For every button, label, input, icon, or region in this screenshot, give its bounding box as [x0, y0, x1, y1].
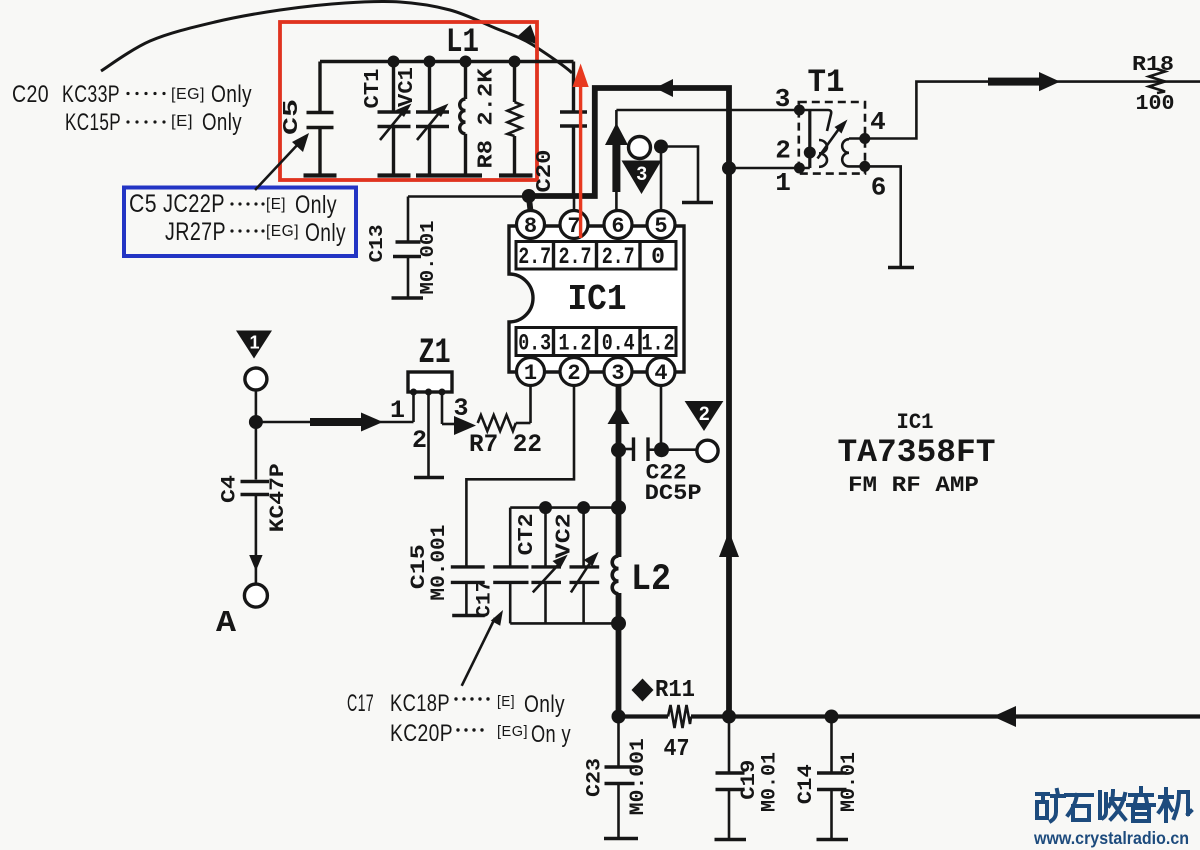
terminal circle A: [244, 584, 267, 607]
resistor R7 22: [469, 415, 542, 459]
thick signal arrow on wire: [310, 418, 364, 426]
svg-text:Only: Only: [202, 109, 242, 136]
junction dot pin5 node: [654, 140, 668, 154]
svg-text:L1: L1: [446, 24, 479, 62]
arrowhead left on bottom rail: [993, 706, 1016, 727]
wire T1 pin6 to ground: [849, 166, 901, 266]
thick segment on pin6 riser: [612, 138, 620, 192]
arrowhead on arc: [518, 25, 539, 45]
junction dot C22 on pin3 wire: [611, 443, 626, 458]
node dot CT1 top: [388, 56, 400, 68]
test point circle 3: [629, 137, 651, 159]
svg-text:Z1: Z1: [419, 333, 451, 373]
blue note box C5 JC22P/JR27P: [124, 188, 356, 257]
svg-text:R8 2.2K: R8 2.2K: [476, 68, 499, 168]
ground bar Z1 pin2: [414, 476, 444, 479]
variable capacitor VC2: [554, 508, 600, 624]
junction dot VC2 top: [577, 501, 590, 514]
svg-text:0.4: 0.4: [602, 331, 635, 357]
svg-text:FM RF AMP: FM RF AMP: [848, 473, 979, 498]
svg-text:CT2: CT2: [516, 513, 539, 555]
marker triangle 2: [685, 401, 724, 431]
resistor R8 2.2K: [476, 62, 533, 176]
svg-text:C5: C5: [281, 99, 304, 135]
wire pin6 to T1 pin3: [616, 109, 810, 112]
ceramic filter Z1: [390, 333, 469, 478]
svg-text:3: 3: [637, 164, 648, 185]
svg-text:1: 1: [390, 396, 405, 425]
svg-text:[EG]: [EG]: [266, 223, 299, 240]
thick supply rail: pin8 node to top bus to right vertical: [529, 88, 729, 717]
arrow from note to C17: [462, 618, 495, 686]
antenna terminal circle top: [245, 368, 267, 390]
junction dot tank bottom: [611, 616, 626, 631]
arrowhead left on top bus: [655, 79, 673, 97]
T1 secondary coil: [842, 139, 849, 166]
svg-text:[E]: [E]: [171, 113, 193, 130]
char yin: [1128, 788, 1154, 821]
svg-text:C4: C4: [219, 475, 242, 503]
char ji: [1159, 789, 1191, 821]
svg-text:JR27P: JR27P: [165, 218, 226, 246]
svg-text:KC15P: KC15P: [65, 109, 121, 136]
svg-text:3: 3: [611, 361, 624, 386]
inductor L1 coil: [449, 62, 482, 176]
svg-text:[E]: [E]: [266, 196, 286, 213]
capacitor C23 M0.001: [584, 717, 651, 839]
junction dot C19/bus node: [722, 710, 736, 724]
svg-text:0.3: 0.3: [518, 331, 551, 357]
T1 primary feed corner: [810, 110, 831, 131]
char shou: [1100, 791, 1125, 819]
junction dot node A: [249, 415, 263, 429]
svg-text:M0.01: M0.01: [759, 752, 782, 812]
svg-text:M0.001: M0.001: [428, 525, 451, 601]
T1 tuning arrow: [818, 126, 842, 159]
arrowhead up on pin3 wire: [608, 405, 630, 424]
test point circle 2: [697, 440, 718, 461]
svg-text:1: 1: [775, 168, 791, 198]
trimmer capacitor CT2: [516, 508, 568, 624]
svg-text:M0.01: M0.01: [838, 752, 861, 812]
T1 primary core line: [808, 110, 811, 168]
tank bottom rail: [510, 622, 618, 625]
svg-text:1: 1: [249, 333, 259, 353]
T1 dashed box: [799, 102, 865, 174]
svg-text:6: 6: [611, 214, 624, 239]
svg-text:DC5P: DC5P: [645, 481, 702, 506]
svg-text:Only: Only: [524, 691, 565, 718]
svg-text:On y: On y: [531, 721, 571, 748]
wire pin4 down to C22 node: [660, 386, 663, 450]
svg-text:Only: Only: [295, 191, 337, 219]
svg-text:4: 4: [870, 107, 886, 137]
svg-text:C5: C5: [129, 190, 157, 218]
marker triangle 3: [622, 161, 662, 195]
svg-text:6: 6: [871, 173, 887, 203]
T1 edge dot pin4: [859, 133, 870, 144]
bottom supply rail: [619, 714, 669, 718]
svg-text:1.2: 1.2: [559, 331, 592, 357]
wire pin2 to C15: [466, 386, 574, 567]
svg-text:100: 100: [1136, 93, 1175, 116]
capacitor C22 DC5P: [619, 437, 702, 506]
resistor R18 100: [1132, 54, 1175, 116]
svg-text:C20: C20: [12, 81, 49, 108]
arrow from blue box to C5: [255, 141, 301, 190]
wire pin8 thick stub: [529, 196, 531, 211]
svg-text:L2: L2: [631, 559, 671, 601]
junction dot C14 node: [825, 710, 839, 724]
voltage value boxes top row: [516, 242, 676, 271]
thick arrow on output wire: [988, 78, 1043, 86]
svg-text:IC1: IC1: [568, 279, 627, 320]
junction dot C22/pin4/TP2: [654, 442, 669, 457]
inductor L2 coil on pin3 wire: [612, 556, 618, 594]
svg-text:VC1: VC1: [396, 67, 419, 107]
watermark logo crystalradio: [1037, 788, 1191, 821]
svg-text:2.7: 2.7: [602, 244, 635, 270]
marker triangle 1: [236, 331, 272, 359]
T1 edge dot pin1: [794, 163, 805, 174]
svg-text:TA7358FT: TA7358FT: [838, 434, 996, 471]
wire pin7 stub: [573, 196, 576, 211]
svg-text:KC33P: KC33P: [62, 81, 120, 108]
tank top rail: [510, 506, 618, 509]
char kuang: [1037, 790, 1064, 821]
pin 5: [647, 211, 675, 239]
pin 2: [560, 358, 588, 386]
wire C22 node to TP2: [662, 448, 697, 451]
svg-text:T1: T1: [808, 64, 845, 101]
arrowhead up on right bus vertical: [719, 531, 739, 557]
svg-text:www.crystalradio.cn: www.crystalradio.cn: [1033, 828, 1189, 848]
svg-text:2: 2: [412, 426, 427, 455]
svg-text:C13: C13: [366, 225, 388, 263]
junction dot tank top: [611, 500, 626, 515]
T1 primary junction dot pin2: [804, 147, 816, 159]
arrowhead down to terminal A: [249, 555, 262, 571]
node dot VC1 top: [424, 56, 436, 68]
capacitor C13 M0.001: [366, 197, 439, 299]
node dot L1 top: [460, 56, 472, 68]
part annotation IC1 TA7358FT FM RF AMP: [838, 410, 996, 498]
pin 8: [517, 211, 545, 239]
ground bar T1 pin6: [888, 266, 914, 269]
svg-text:3: 3: [775, 84, 791, 114]
svg-text:R11: R11: [655, 677, 695, 704]
svg-text:R7 22: R7 22: [469, 430, 542, 459]
T1 primary coil: [819, 140, 827, 167]
pin 3: [604, 358, 632, 386]
svg-text:[EG]: [EG]: [497, 723, 528, 740]
svg-text:Only: Only: [305, 219, 346, 247]
arrowhead on Z1 output: [454, 416, 476, 435]
svg-text:5: 5: [654, 214, 667, 239]
svg-text:VC2: VC2: [554, 513, 577, 558]
svg-text:2: 2: [699, 404, 710, 425]
svg-text:M0.001: M0.001: [627, 738, 650, 815]
svg-text:Only: Only: [211, 81, 252, 108]
capacitor C17 on left edge: [474, 508, 529, 624]
ground bar: [682, 201, 713, 204]
wire Z1 pin3 to R7: [442, 423, 458, 426]
svg-text:KC18P: KC18P: [390, 690, 450, 717]
wire C13 node: [408, 195, 529, 198]
svg-text:KC47P: KC47P: [267, 463, 290, 532]
svg-text:8: 8: [524, 214, 537, 239]
red highlight box around L1 tank: [280, 22, 537, 180]
arrowhead up on pin6 riser: [605, 123, 628, 145]
svg-text:JC22P: JC22P: [163, 190, 225, 218]
svg-text:2.7: 2.7: [559, 244, 592, 270]
svg-text:C17: C17: [474, 580, 497, 618]
svg-text:47: 47: [664, 736, 690, 763]
svg-text:R18: R18: [1132, 54, 1174, 77]
svg-text:KC20P: KC20P: [390, 720, 453, 747]
svg-text:1: 1: [524, 361, 537, 386]
wire T1 pin1 from bus: [729, 167, 810, 170]
svg-text:C14: C14: [795, 764, 818, 804]
variable capacitor VC1: [396, 62, 449, 176]
pin 4: [647, 358, 675, 386]
IC1 body: [509, 226, 684, 372]
capacitor C14 M0.01: [795, 717, 861, 840]
top rail wire of tank: [320, 60, 574, 63]
svg-text:2: 2: [567, 361, 580, 386]
wire T1 pin4 output: [849, 82, 1200, 139]
capacitor C19 M0.01: [715, 717, 782, 840]
char shi: [1066, 795, 1092, 820]
wire node A to Z1 pin1: [256, 421, 414, 424]
svg-text:C20: C20: [534, 150, 557, 193]
trimmer capacitor CT1: [362, 62, 412, 176]
svg-text:M0.001: M0.001: [417, 221, 439, 295]
thick wire pin3 down: [616, 386, 622, 558]
note text C20 KC33P [EG] Only: [12, 81, 252, 108]
junction dot CT2 top: [539, 501, 552, 514]
capacitor C5: [281, 62, 337, 176]
svg-text:4: 4: [654, 361, 667, 386]
red annotation arrow through pin 7: [579, 80, 582, 238]
junction dot pin8/C13/C20 node: [522, 189, 536, 203]
node dot R8 top: [509, 56, 521, 68]
pin 6: [604, 211, 632, 239]
note text KC15P [E] Only: [65, 109, 242, 136]
note text C17 KC18P [E] Only: [347, 690, 565, 718]
T1 edge dot pin3: [794, 105, 805, 116]
junction dot bus to T1 pin1: [722, 161, 736, 175]
svg-text:A: A: [216, 606, 236, 641]
svg-text:C23: C23: [584, 758, 607, 797]
svg-text:[EG]: [EG]: [171, 86, 205, 103]
svg-text:2: 2: [775, 136, 791, 166]
svg-text:[E]: [E]: [497, 693, 515, 710]
junction dot C23 node: [612, 710, 626, 724]
annotation arc from C20 note to C20 cap: [101, 1, 572, 73]
capacitor C4 KC47P: [219, 426, 291, 556]
wire R7 to pin1: [516, 422, 531, 425]
pin 1: [517, 358, 545, 386]
wire pin5 stub: [660, 147, 663, 211]
note text KC20P [EG] On y: [390, 720, 571, 748]
capacitor C20: [534, 62, 587, 197]
svg-text:1.2: 1.2: [642, 331, 675, 357]
resistor R11 47: [655, 677, 695, 763]
capacitor C15 M0.001: [408, 525, 485, 616]
svg-text:7: 7: [567, 214, 580, 239]
diamond marker R11: [632, 679, 654, 702]
wire terminal to node A junction: [255, 390, 258, 418]
voltage value boxes bottom row: [516, 328, 676, 357]
svg-text:IC1: IC1: [897, 410, 934, 435]
svg-text:0: 0: [651, 244, 665, 270]
svg-text:2.7: 2.7: [518, 244, 551, 270]
pin 7: [560, 211, 588, 239]
T1 edge dot pin6: [859, 161, 870, 172]
svg-text:C17: C17: [347, 690, 374, 717]
svg-text:CT1: CT1: [362, 69, 385, 109]
wire pin5 node to ground: [661, 147, 698, 202]
